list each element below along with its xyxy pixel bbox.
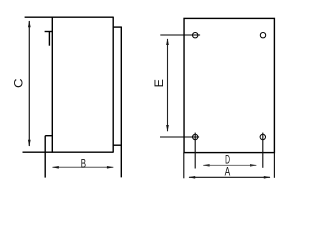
svg-text:A: A — [225, 166, 231, 179]
hole bottom-right — [260, 134, 265, 139]
svg-text:E: E — [152, 79, 166, 87]
svg-text:C: C — [12, 79, 25, 89]
dimension B arrowheads — [52, 166, 114, 169]
hole top-right — [260, 33, 265, 38]
left view: top-left tab (T feature) — [45, 32, 53, 46]
dimension C line — [28, 21, 30, 146]
svg-text:B: B — [81, 158, 86, 171]
extension line below bottom-left hole — [194, 133, 196, 169]
extension line below bottom-right hole — [262, 133, 264, 168]
dimension B line — [53, 166, 114, 168]
left view: bottom-left step / extension line — [45, 136, 52, 178]
right view: body rectangle (front view) — [184, 18, 274, 152]
dimension A line — [189, 176, 270, 178]
extension line through bottom-left hole — [160, 136, 199, 138]
dimension A arrowheads — [188, 176, 270, 179]
right view: right side extension line for A — [273, 153, 275, 178]
dimension C arrowheads — [28, 20, 31, 146]
dimension D arrowheads — [203, 164, 257, 167]
dimension E line — [167, 39, 169, 131]
svg-text:D: D — [225, 154, 230, 168]
right view: left side extension line for A — [183, 153, 185, 179]
hole top-left — [193, 33, 198, 38]
dimension D line — [203, 164, 256, 166]
hole bottom-left — [193, 134, 198, 139]
left view: body outline (side view of transformer) — [23, 17, 114, 153]
extension line through top-left hole — [160, 34, 200, 36]
dimension E arrowheads — [166, 38, 169, 132]
left view: right mounting flange with steps — [113, 27, 121, 178]
